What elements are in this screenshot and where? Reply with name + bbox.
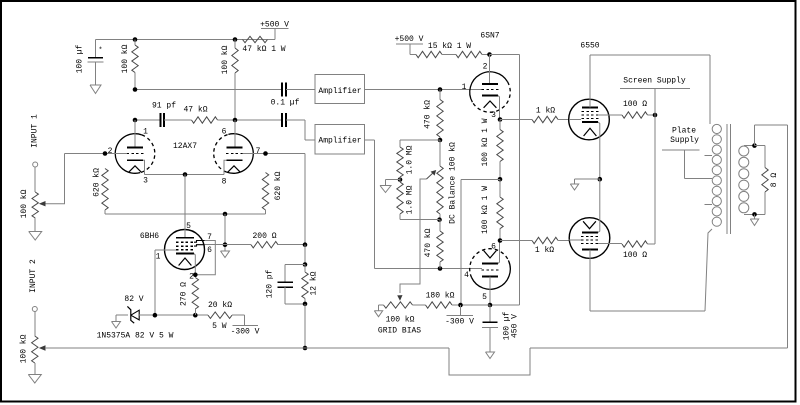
svg-text:91 pf: 91 pf bbox=[152, 102, 176, 111]
svg-text:200 Ω: 200 Ω bbox=[252, 232, 276, 241]
svg-text:15 kΩ 1 W: 15 kΩ 1 W bbox=[428, 42, 471, 51]
svg-text:5: 5 bbox=[482, 293, 487, 302]
svg-text:+500 V: +500 V bbox=[395, 35, 424, 44]
svg-text:GRID BIAS: GRID BIAS bbox=[378, 327, 421, 336]
svg-text:0.1 µf: 0.1 µf bbox=[271, 99, 300, 108]
svg-text:8: 8 bbox=[222, 178, 227, 187]
svg-text:3: 3 bbox=[143, 177, 148, 186]
svg-text:12 kΩ: 12 kΩ bbox=[310, 271, 319, 295]
svg-text:12AX7: 12AX7 bbox=[173, 142, 197, 151]
svg-text:1: 1 bbox=[156, 253, 161, 262]
svg-text:100 kΩ: 100 kΩ bbox=[20, 334, 29, 363]
svg-text:100 kΩ 1 W: 100 kΩ 1 W bbox=[481, 186, 490, 234]
svg-text:-300 V: -300 V bbox=[445, 317, 474, 326]
svg-text:180 kΩ: 180 kΩ bbox=[426, 292, 455, 301]
svg-text:82 V: 82 V bbox=[124, 295, 143, 304]
svg-text:47 kΩ 1 W: 47 kΩ 1 W bbox=[242, 45, 285, 54]
svg-text:6: 6 bbox=[207, 246, 212, 255]
svg-text:Amplifier: Amplifier bbox=[318, 137, 361, 146]
svg-text:2: 2 bbox=[108, 147, 113, 156]
svg-text:Plate: Plate bbox=[672, 127, 696, 136]
svg-text:100 µf: 100 µf bbox=[76, 44, 85, 73]
svg-text:+500 V: +500 V bbox=[260, 21, 289, 30]
svg-text:1 kΩ: 1 kΩ bbox=[535, 246, 554, 255]
svg-text:6550: 6550 bbox=[580, 42, 599, 51]
svg-text:100 kΩ: 100 kΩ bbox=[20, 189, 29, 218]
svg-text:3: 3 bbox=[491, 111, 496, 120]
svg-text:Supply: Supply bbox=[670, 136, 699, 145]
svg-text:470 kΩ: 470 kΩ bbox=[424, 100, 433, 129]
svg-text:Amplifier: Amplifier bbox=[318, 87, 361, 96]
svg-text:1: 1 bbox=[462, 83, 467, 92]
svg-text:INPUT 1: INPUT 1 bbox=[31, 114, 40, 148]
svg-text:100 Ω: 100 Ω bbox=[623, 251, 647, 260]
svg-text:1N5375A 82 V 5 W: 1N5375A 82 V 5 W bbox=[97, 332, 174, 341]
svg-text:470 kΩ: 470 kΩ bbox=[424, 228, 433, 257]
svg-text:2: 2 bbox=[189, 273, 194, 282]
svg-text:INPUT 2: INPUT 2 bbox=[29, 259, 38, 293]
svg-text:100 kΩ: 100 kΩ bbox=[221, 45, 230, 74]
svg-text:100 kΩ: 100 kΩ bbox=[386, 316, 415, 325]
svg-text:Screen Supply: Screen Supply bbox=[623, 77, 686, 86]
svg-text:620 kΩ: 620 kΩ bbox=[93, 168, 102, 197]
svg-text:6: 6 bbox=[222, 128, 227, 137]
svg-text:6SN7: 6SN7 bbox=[480, 32, 499, 41]
svg-text:100 kΩ 1 W: 100 kΩ 1 W bbox=[481, 118, 490, 166]
svg-text:1: 1 bbox=[143, 128, 148, 137]
svg-text:1.0 MΩ: 1.0 MΩ bbox=[406, 185, 415, 214]
svg-text:120 pf: 120 pf bbox=[266, 269, 275, 298]
svg-text:7: 7 bbox=[256, 147, 261, 156]
svg-text:6: 6 bbox=[491, 243, 496, 252]
svg-text:100 kΩ: 100 kΩ bbox=[121, 44, 130, 73]
svg-text:7: 7 bbox=[207, 233, 212, 242]
svg-text:1.0 MΩ: 1.0 MΩ bbox=[406, 145, 415, 174]
svg-text:4: 4 bbox=[464, 271, 469, 280]
svg-text:6BH6: 6BH6 bbox=[140, 232, 159, 241]
svg-text:450 V: 450 V bbox=[511, 314, 520, 338]
svg-text:100 Ω: 100 Ω bbox=[623, 100, 647, 109]
svg-text:2: 2 bbox=[483, 63, 488, 72]
svg-text:270 Ω: 270 Ω bbox=[180, 282, 189, 306]
svg-text:1 kΩ: 1 kΩ bbox=[536, 107, 555, 116]
svg-text:DC Balance 100 kΩ: DC Balance 100 kΩ bbox=[449, 142, 458, 224]
svg-text:8 Ω: 8 Ω bbox=[770, 173, 779, 188]
svg-text:620 kΩ: 620 kΩ bbox=[274, 171, 283, 200]
svg-text:20 kΩ: 20 kΩ bbox=[208, 301, 232, 310]
svg-text:*: * bbox=[98, 47, 102, 55]
svg-text:47 kΩ: 47 kΩ bbox=[183, 106, 207, 115]
svg-text:5: 5 bbox=[186, 222, 191, 231]
svg-text:-300 V: -300 V bbox=[231, 328, 260, 337]
svg-text:5 W: 5 W bbox=[212, 322, 227, 331]
